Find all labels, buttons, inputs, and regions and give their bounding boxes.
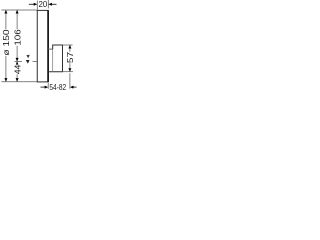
54-82: right arrow pointing left: [73, 86, 77, 88]
centerline marker upper wedge: [26, 55, 30, 59]
handle inner edge: [52, 49, 54, 71]
svg-text:106: 106: [12, 29, 22, 46]
top extension line y10 left: [1, 9, 37, 11]
label 44: [13, 65, 20, 75]
label 106: [13, 29, 20, 46]
dim 20: left arrow pointing right: [29, 3, 35, 5]
arrow up 44: [16, 61, 19, 65]
dimension line 44 vertical: [16, 61, 18, 81]
57 dim: bottom extension line (knob bottom continuation): [63, 71, 74, 73]
svg-text:44: 44: [12, 64, 22, 74]
svg-text:20: 20: [39, 0, 48, 9]
dimension line ø150 vertical: [5, 10, 7, 81]
handle knob outline: [48, 45, 63, 72]
dim 20: extension line right: [47, 0, 49, 8]
arrow up 57: [68, 45, 71, 49]
centerline tick at y61.4 (dash-dot-dash): [15, 60, 22, 62]
dim 20: right arrow pointing left: [51, 3, 57, 5]
svg-text:ø 150: ø 150: [1, 29, 11, 55]
arrow up ø150: [4, 10, 7, 14]
handle neck top: [48, 48, 53, 50]
54-82 dim: extension line right: [69, 73, 71, 89]
label ø 150: [2, 29, 9, 56]
arrow down ø150: [4, 78, 7, 82]
dim 20: extension line left (above plate): [36, 1, 38, 10]
54-82 dim: extension line left below plate: [47, 83, 49, 89]
plate front face (darker/thicker): [47, 10, 49, 82]
dimension line 57 vertical: [69, 45, 71, 72]
centerline marker lower wedge: [26, 60, 30, 64]
bottom extension line y81.7 left: [1, 81, 37, 83]
arrow down 44: [16, 78, 19, 82]
54-82: left arrow pointing right: [41, 86, 46, 88]
technical dimension drawing, side view of concealed thermostat plate with handle: [0, 0, 78, 95]
arrow down 106: [16, 58, 19, 62]
svg-text:57: 57: [65, 52, 75, 63]
dimension line 106 vertical: [16, 10, 18, 61]
centerline dash near plate: [33, 60, 38, 62]
label 57: [66, 52, 73, 63]
svg-text:54-82: 54-82: [49, 82, 66, 92]
57 dim: top extension line: [63, 44, 73, 46]
arrow up 106: [16, 10, 19, 14]
wall plate side view rectangle: [37, 10, 48, 82]
arrow down 57: [68, 68, 71, 72]
